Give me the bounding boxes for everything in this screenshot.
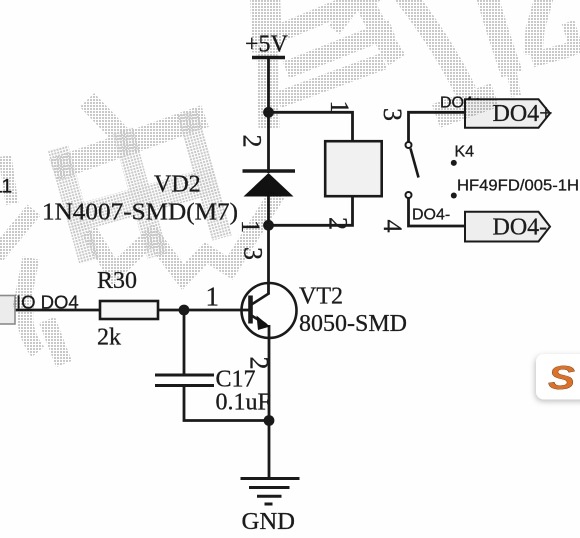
port flag DO4- — [465, 212, 550, 242]
svg-text:2: 2 — [324, 217, 353, 230]
wire +5V to node A — [267, 58, 270, 115]
svg-text:2: 2 — [238, 135, 267, 148]
wire node A to relay pin 1 — [269, 112, 353, 142]
svg-text:HF49FD/005-1H: HF49FD/005-1H — [457, 178, 579, 195]
transistor VT2 — [242, 283, 297, 338]
watermark stroke: big hook curve — [404, 0, 466, 92]
switch contact K4 — [406, 142, 419, 198]
node emitter junction — [264, 415, 275, 426]
svg-text:3: 3 — [378, 108, 407, 121]
wire relay pin 2 to node B — [269, 196, 353, 225]
svg-text:K4: K4 — [455, 144, 475, 161]
svg-text:2k: 2k — [97, 325, 121, 351]
wire emitter to node E — [268, 325, 271, 421]
watermark stroke: left of hook (person-shape left leg) — [334, 0, 362, 30]
svg-text:DO4-: DO4- — [412, 207, 450, 224]
svg-text:8050-SMD: 8050-SMD — [299, 311, 407, 337]
watermark stroke: tilted top bar — [53, 116, 205, 170]
K4 anchor dot — [451, 160, 457, 166]
watermark stroke: tall right vertical — [486, 0, 512, 74]
svg-text:S: S — [548, 359, 575, 396]
resistor R30 — [100, 301, 158, 319]
wire diode anode to node B — [267, 194, 270, 227]
wire R30 to base — [158, 309, 249, 312]
wire C17 bottom to emitter node — [184, 386, 269, 421]
watermark stroke: diagonal A — [282, 0, 378, 32]
wire switch pin 3 — [409, 112, 466, 142]
svg-text:2: 2 — [245, 357, 274, 370]
logo card — [536, 354, 580, 400]
diode VD2 — [243, 171, 296, 197]
node A junction — [263, 107, 274, 118]
node base junction — [179, 305, 190, 316]
ground GND symbol — [241, 479, 300, 505]
watermark stroke: person-shape right leg — [360, 0, 397, 60]
svg-text:GND: GND — [242, 509, 296, 535]
watermark stroke: diagonal B — [286, 28, 392, 70]
watermark stroke: crossing slash — [87, 100, 132, 147]
relay coil K4 — [325, 141, 382, 196]
HF49FD anchor dot — [451, 193, 457, 199]
wire IO DO4 to R30 — [14, 309, 100, 312]
watermark zigzag band — [89, 194, 277, 277]
svg-text:1: 1 — [325, 101, 354, 114]
watermark patch near DO4+ — [436, 95, 495, 116]
watermark stroke: diagonal C — [278, 61, 384, 100]
wire node E to ground — [268, 421, 271, 479]
watermark stroke: vertical bar above +5V — [265, 0, 267, 52]
svg-text:VT2: VT2 — [299, 284, 343, 310]
watermark glyph: big boxed character — [49, 109, 230, 276]
power +5V bar — [252, 56, 285, 59]
node B junction — [263, 220, 274, 231]
svg-text:DO4-: DO4- — [493, 215, 548, 241]
wire node B to collector — [267, 224, 270, 294]
watermark stroke: corner right edge band — [568, 22, 578, 54]
wire switch pin 4 — [409, 198, 466, 226]
watermark stroke: corner hook bottom — [532, 49, 572, 60]
wire node A to diode cathode — [267, 110, 270, 173]
watermark stroke: corner hook left side — [533, 0, 545, 55]
wire base node to C17 top — [183, 310, 186, 375]
svg-text:DO4+: DO4+ — [493, 101, 553, 127]
connector stub at left edge — [0, 296, 15, 325]
capacitor C17 — [155, 375, 214, 386]
watermark strokes: left edge partial glyph — [0, 210, 34, 256]
svg-text:0.1uF: 0.1uF — [216, 390, 271, 416]
port flag DO4+ — [465, 99, 553, 128]
svg-text:4: 4 — [378, 220, 407, 233]
svg-text:1: 1 — [206, 282, 220, 312]
